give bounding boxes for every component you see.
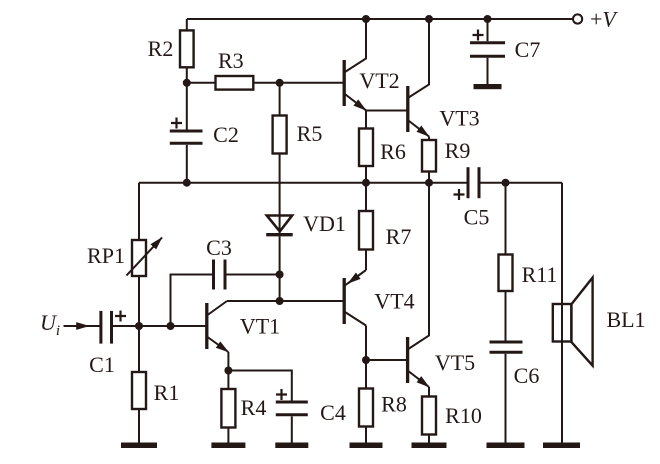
label R7 (386, 224, 412, 249)
node C3 branch junction (167, 322, 175, 330)
wire C4 bottom lead (291, 416, 293, 442)
svg-text:R1: R1 (154, 380, 180, 405)
label VT5 (435, 350, 475, 375)
wire R2 top lead (186, 19, 188, 30)
label C3 (206, 235, 232, 260)
transistor VT1 (207, 301, 229, 352)
resistor R5 (273, 116, 287, 154)
ground bar under C7 (474, 84, 502, 89)
diode VD1 (266, 216, 293, 235)
label R10 (445, 403, 482, 428)
resistor R6 (359, 129, 373, 167)
label VD1 (303, 211, 346, 236)
ground under R1 (121, 443, 157, 449)
wire C3 right lead (225, 274, 280, 276)
label R11 (522, 262, 558, 287)
label BL1 (606, 307, 645, 332)
node VT2 collector on rail (362, 15, 370, 23)
wire R8 top lead (365, 360, 367, 389)
svg-text:C5: C5 (464, 205, 490, 230)
capacitor C5 (468, 167, 479, 198)
node C3/VD1 junction (276, 271, 284, 279)
wire R3 right lead (253, 82, 279, 84)
node bus/R6/R7 junction (362, 179, 370, 187)
wire VD1 node to collector node (279, 275, 281, 302)
wire R9 bottom lead (428, 172, 430, 183)
svg-text:RP1: RP1 (87, 243, 125, 268)
capacitor C3 (214, 260, 226, 290)
resistor R11 (499, 255, 513, 292)
node R2/R3/C2 junction (183, 79, 191, 87)
label C2 (213, 122, 239, 147)
wire R1 top lead (138, 326, 140, 372)
svg-text:R10: R10 (445, 403, 482, 428)
wire VT4 collector down (365, 326, 367, 361)
svg-text:R8: R8 (381, 392, 407, 417)
resistor R2 (180, 30, 194, 67)
label R1 (154, 380, 180, 405)
label R6 (380, 139, 406, 164)
ground under R10 (412, 443, 447, 449)
node R3/R5/VT2 base junction (276, 79, 284, 87)
transistor VT3 (408, 19, 429, 137)
node C5/R11 junction (502, 179, 510, 187)
wire speaker feed down (561, 183, 563, 443)
wire R11 bottom lead (505, 291, 507, 341)
wire middle bus (139, 182, 468, 184)
resistor R7 (359, 211, 373, 250)
wire VT1 base (139, 325, 207, 327)
wire VT4 emitter to R7 (365, 250, 367, 271)
wire R3 left lead (187, 82, 216, 84)
svg-text:C6: C6 (514, 363, 540, 388)
label R8 (381, 392, 407, 417)
wire R1 bottom lead (138, 409, 140, 443)
wire VD1 bottom lead (279, 236, 281, 274)
label VT4 (374, 289, 414, 314)
label R3 (218, 48, 244, 73)
label VT3 (439, 106, 479, 131)
svg-text:R5: R5 (297, 121, 323, 146)
capacitor C6 (490, 342, 523, 352)
label C7 (515, 37, 541, 62)
capacitor C7 (470, 43, 505, 57)
svg-text:VT5: VT5 (435, 350, 475, 375)
svg-text:R7: R7 (386, 224, 412, 249)
label R2 (148, 36, 174, 61)
speaker BL1 (553, 278, 593, 366)
node bus/C2 junction (183, 179, 191, 187)
plus sign C2 (171, 118, 182, 129)
resistor R9 (422, 140, 436, 172)
wire top supply rail (187, 18, 573, 20)
label C5 (464, 205, 490, 230)
wire VT5 emitter to R10 (428, 387, 430, 397)
terminal +V open circle (573, 14, 582, 23)
wire VT1 emitter lead (227, 352, 229, 371)
wire C6 bottom lead (505, 354, 507, 443)
svg-text:+V: +V (590, 7, 618, 32)
svg-text:VD1: VD1 (303, 211, 346, 236)
resistor R8 (359, 389, 373, 427)
resistor R10 (422, 397, 436, 435)
transistor VT5 (408, 183, 429, 387)
svg-text:C2: C2 (213, 122, 239, 147)
label R5 (297, 121, 323, 146)
plus sign C4 (276, 389, 287, 400)
label RP1 (87, 243, 125, 268)
wire VT2 base (280, 82, 345, 84)
wire R4 top lead (227, 371, 229, 390)
svg-text:VT3: VT3 (439, 106, 479, 131)
node VT1 emitter junction (224, 367, 232, 375)
label C6 (514, 363, 540, 388)
plus sign C7 (473, 30, 484, 41)
ground under C4 (275, 443, 308, 449)
label +V (590, 7, 618, 32)
wire R11 top lead (505, 183, 507, 255)
input arrow (64, 325, 101, 327)
svg-text:C7: C7 (515, 37, 541, 62)
plus sign C1 (115, 311, 126, 322)
svg-text:R3: R3 (218, 48, 244, 73)
wire C7 top lead (487, 19, 489, 41)
svg-text:C4: C4 (320, 400, 346, 425)
wire R10 bottom lead (428, 435, 430, 443)
label VT1 (240, 314, 280, 339)
ground under R8 (350, 443, 383, 449)
node C1/RP1/R1 junction (135, 322, 143, 330)
wire R7 top lead (365, 183, 367, 211)
plus sign C5 (454, 189, 465, 200)
wire C3 left lead down to base node (171, 275, 214, 327)
node bus/R9/VT5 junction (425, 179, 433, 187)
svg-text:R9: R9 (445, 138, 471, 163)
svg-text:VT1: VT1 (240, 314, 280, 339)
wire C5 right to speaker branch (479, 182, 562, 184)
wire R5 to VD1 (crosses bus, no dot) (279, 154, 281, 237)
wire R5 top lead (279, 83, 281, 116)
node VT1 collector/VT4 base junction (276, 297, 284, 305)
capacitor C1 (101, 311, 112, 344)
svg-text:C3: C3 (206, 235, 232, 260)
wire VT3 emitter to R9 (428, 137, 430, 141)
svg-text:C1: C1 (89, 352, 115, 377)
label R9 (445, 138, 471, 163)
label Ui input (40, 310, 60, 339)
svg-text:VT2: VT2 (359, 68, 399, 93)
wire VT2 emitter to VT3 base (366, 110, 408, 112)
wire R8 bottom lead (365, 427, 367, 443)
resistor R3 (216, 76, 254, 90)
label C4 (320, 400, 346, 425)
label R4 (241, 395, 267, 420)
node VT3 collector on rail (425, 15, 433, 23)
ground under R4 (211, 443, 245, 449)
wire RP1 bottom lead (138, 276, 140, 326)
svg-text:VT4: VT4 (374, 289, 414, 314)
wire R6 bottom lead (365, 166, 367, 183)
node C7 on rail (484, 15, 492, 23)
resistor R4 (221, 389, 235, 428)
svg-text:R4: R4 (241, 395, 267, 420)
ground under C6 (487, 443, 525, 449)
wire C4 top lead (228, 371, 291, 401)
svg-text:BL1: BL1 (606, 307, 645, 332)
wire VT1 collector to VT4 base (227, 300, 344, 302)
potentiometer RP1 (127, 238, 163, 277)
svg-text:R6: R6 (380, 139, 406, 164)
capacitor C4 (276, 402, 308, 415)
transistor VT2 (344, 19, 366, 110)
wire C7 bottom lead (487, 58, 489, 84)
capacitor C2 (170, 131, 203, 143)
wire C2 bottom lead (186, 145, 188, 183)
resistor R1 (132, 372, 146, 409)
wire VT5 base (366, 359, 408, 361)
ground under BL1 (543, 443, 580, 449)
wire RP1 top lead (138, 183, 140, 240)
wire R2 bottom lead (186, 67, 188, 83)
wire VT2 emitter to R6 (365, 111, 367, 129)
svg-text:R2: R2 (148, 36, 174, 61)
capacitor C2 top lead wire (186, 83, 188, 130)
wire R4 bottom lead (227, 428, 229, 443)
label VT2 (359, 68, 399, 93)
svg-text:R11: R11 (522, 262, 558, 287)
transistor VT4 (PNP) (344, 270, 366, 326)
label C1 (89, 352, 115, 377)
node VT4 collector/R8/VT5 base junction (362, 356, 370, 364)
wire C1 to base node (112, 325, 140, 327)
